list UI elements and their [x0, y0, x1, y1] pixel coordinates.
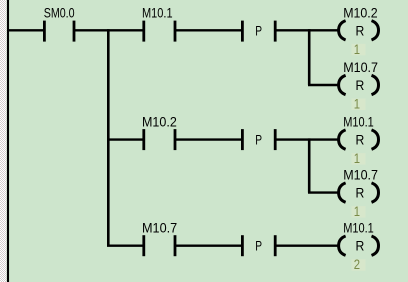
wire SM0.0 to M10.1	[74, 29, 143, 31]
wire M10.7 to P rung3	[175, 244, 243, 246]
wire branch to M10.7 contact (rung3)	[107, 244, 143, 246]
svg-text:M10.2: M10.2	[142, 114, 177, 130]
dithered margin strip	[0, 0, 7, 282]
value 1 (rung2 coil M10.1)	[352, 150, 366, 166]
svg-text:R: R	[356, 186, 365, 201]
value 1 (rung1b coil M10.7)	[352, 96, 366, 112]
junction branch down (right, rung2)	[308, 138, 311, 192]
contact P rung2	[242, 129, 275, 150]
svg-text:M10.1: M10.1	[142, 4, 173, 20]
svg-text:R: R	[356, 78, 365, 93]
wire P to coil M10.1 rung2	[275, 138, 339, 140]
svg-text:SM0.0: SM0.0	[44, 4, 75, 20]
value 1 (rung2b coil M10.7)	[352, 203, 366, 219]
wire branch to coil M10.7 (rung2b)	[308, 191, 339, 193]
wire P to coil M10.2	[275, 29, 339, 31]
svg-text:R: R	[356, 239, 365, 254]
coil M10.1 (R) rung2	[339, 130, 379, 149]
contact SM0.0	[44, 21, 74, 42]
svg-text:R: R	[356, 133, 365, 148]
svg-text:M10.1: M10.1	[343, 114, 374, 130]
svg-text:1: 1	[354, 41, 360, 57]
svg-text:M10.7: M10.7	[343, 59, 378, 75]
coil M10.1 (R) rung3	[339, 236, 379, 255]
svg-text:M10.2: M10.2	[343, 4, 378, 20]
svg-text:2: 2	[354, 256, 360, 272]
svg-text:P: P	[255, 239, 262, 254]
svg-text:P: P	[255, 23, 262, 38]
svg-text:1: 1	[354, 150, 360, 166]
contact M10.7 rung3	[144, 235, 175, 256]
svg-text:M10.1: M10.1	[343, 220, 374, 236]
svg-text:M10.7: M10.7	[343, 167, 378, 183]
contact M10.1	[144, 21, 175, 42]
svg-text:R: R	[356, 23, 365, 38]
value 1 (rung1 coil M10.2)	[352, 41, 366, 57]
svg-text:1: 1	[354, 96, 360, 112]
wire rail to SM0.0	[7, 29, 44, 31]
wire branch to coil M10.7 (rung1b)	[308, 84, 339, 86]
coil M10.7 (R) rung2b	[339, 183, 379, 202]
wire P to coil M10.1 rung3	[275, 244, 339, 246]
contact M10.2 rung2	[144, 129, 175, 150]
svg-text:P: P	[255, 133, 262, 148]
wire branch to M10.2 contact (rung2)	[107, 138, 143, 140]
junction branch down (right, rung1)	[308, 29, 311, 85]
contact P rung3	[242, 235, 275, 256]
svg-text:M10.7: M10.7	[142, 220, 177, 236]
value 2 (rung3 coil M10.1)	[352, 256, 366, 272]
coil M10.7 (R) rung1b	[339, 75, 379, 94]
wire M10.2 to P rung2	[175, 138, 243, 140]
contact P (positive edge) rung1	[242, 21, 275, 42]
svg-text:1: 1	[354, 203, 360, 219]
left power rail	[7, 0, 9, 282]
junction branch down (left)	[107, 29, 110, 246]
coil M10.2 (R)	[339, 21, 379, 40]
wire M10.1 to P contact	[175, 29, 243, 31]
